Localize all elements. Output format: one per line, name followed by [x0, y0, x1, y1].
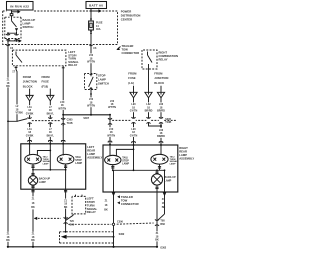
svg-text:FROM: FROM: [128, 71, 137, 75]
label BACK-UP LAMP SWITCH: [23, 18, 36, 29]
svg-text:FROM: FROM: [23, 75, 32, 79]
svg-text:BK: BK: [104, 209, 108, 212]
node BATT A0 feed box: [86, 2, 107, 9]
svg-text:B66: B66: [160, 223, 165, 226]
svg-text:T10B: T10B: [165, 121, 171, 124]
junction dot T4/T5: [160, 125, 162, 127]
svg-text:RELAY: RELAY: [68, 63, 77, 67]
label T08 B66: [160, 220, 165, 226]
wire Z1 long left vertical: [7, 42, 9, 247]
connector pair right leg: [15, 33, 19, 42]
label FROM JUNCTION BLOCK left: [23, 75, 37, 88]
svg-text:CENTER: CENTER: [121, 18, 132, 22]
svg-text:WT/TN: WT/TN: [87, 105, 95, 108]
dashed inline connector line left: [32, 120, 61, 122]
exit wires left box: [32, 185, 34, 189]
svg-text:BLOCK: BLOCK: [154, 81, 164, 85]
branch diagonal to T1 connector: [17, 119, 28, 122]
switch output arrowhead: [15, 28, 18, 31]
label L63 18 BR/RD: [157, 102, 165, 112]
label POWER DISTRIBUTION CENTER: [121, 10, 141, 22]
svg-text:RELAY: RELAY: [87, 210, 96, 214]
svg-text:LAMP: LAMP: [23, 21, 31, 25]
dashed line from left ground to trailer C: [34, 217, 61, 220]
wire relay to triangle: [148, 69, 150, 92]
label RIGHT REAR LAMP ASSEMBLY: [179, 146, 194, 161]
svg-text:BK: BK: [64, 206, 68, 209]
svg-text:LEFT: LEFT: [87, 145, 94, 149]
svg-text:BK: BK: [155, 239, 159, 242]
label Z1 18 BK: [29, 196, 38, 209]
label TRAILER TOW CONNECTOR lower: [117, 195, 138, 206]
label L61 lower: [26, 127, 34, 137]
label L90 18 GY/TN: [130, 102, 138, 112]
label TAIL/ STOP LAMP right: [122, 157, 129, 166]
svg-text:REAR: REAR: [179, 149, 187, 153]
svg-text:CONNECTOR: CONNECTOR: [121, 202, 139, 206]
svg-text:DISTRIBUTION: DISTRIBUTION: [121, 14, 141, 18]
svg-text:LEFT: LEFT: [87, 197, 94, 201]
label TAIL/TURN SIGNAL LAMP: [43, 155, 52, 165]
svg-text:BK: BK: [31, 206, 35, 209]
svg-text:TOW: TOW: [121, 199, 128, 203]
svg-text:BK: BK: [31, 239, 35, 242]
svg-text:BR/RD: BR/RD: [145, 110, 153, 113]
svg-text:LAMP: LAMP: [179, 153, 187, 157]
switch innards: [89, 72, 94, 92]
svg-text:RELAY: RELAY: [159, 57, 168, 61]
ground bus line: [8, 246, 157, 248]
wire T2 column: [49, 101, 51, 144]
svg-text:(F18): (F18): [42, 84, 49, 88]
lamp tail/stop right box: [105, 155, 121, 164]
svg-text:RIGHT: RIGHT: [179, 146, 188, 150]
svg-text:WT/TN: WT/TN: [108, 106, 116, 109]
right relay dashed box: [142, 50, 157, 69]
connector pair T3 wire: [131, 117, 135, 123]
internal ground bus: [31, 164, 67, 171]
svg-text:LAMP: LAMP: [39, 181, 46, 184]
arrow tap right: [12, 10, 21, 13]
relay innards: [148, 52, 153, 70]
svg-text:REAR: REAR: [87, 148, 95, 152]
label TAIL/TURN SIGNAL LAMP right: [170, 155, 179, 165]
label FUSE 14 40A: [96, 22, 103, 31]
label S305 T10B: [165, 118, 171, 124]
label TAIL/ STOP LAMP: [75, 156, 82, 165]
label L90 lower: [130, 127, 138, 137]
wire below stop switch: [90, 92, 92, 115]
splice S302: [113, 236, 115, 238]
label L50 above right drop: [108, 100, 116, 109]
svg-text:BACK-UP: BACK-UP: [23, 18, 36, 22]
svg-text:JUNCTION: JUNCTION: [154, 76, 168, 80]
wire from IN RUN box down: [11, 10, 13, 14]
svg-text:WT/TN: WT/TN: [58, 107, 66, 110]
svg-text:WT/TN: WT/TN: [107, 134, 115, 137]
svg-text:FROM: FROM: [154, 71, 163, 75]
svg-text:LAMP: LAMP: [98, 77, 106, 81]
back-up switch blade: [12, 16, 17, 27]
wire T3 column: [133, 98, 135, 145]
back-up lamp switch dashed box: [5, 17, 21, 38]
wire label on relay left leg: [14, 104, 23, 114]
connector pair T4 wire: [146, 117, 150, 123]
left ground wire 1: [32, 189, 34, 247]
svg-text:C306: C306: [117, 221, 123, 224]
svg-text:TURN: TURN: [87, 203, 95, 207]
junction dot: [7, 40, 9, 42]
connector pair right ground: [155, 218, 159, 227]
label L61 18 GY/BK: [26, 105, 34, 115]
dashed line to trailer conn C306: [68, 223, 111, 225]
label BACK-UP LAMP: [39, 178, 51, 184]
label L63 lower: [157, 128, 165, 138]
power distribution center dashed border: [3, 11, 118, 45]
label C305 T10B: [67, 118, 73, 124]
label L7 18 BK/YL: [46, 105, 54, 115]
wire label L50 18 WT/TN relay leg: [58, 100, 67, 110]
wire fuse down: [90, 30, 92, 72]
drop to right lamp from splice: [109, 115, 111, 145]
connector pair T5 wire: [159, 117, 163, 123]
relay coil ground wire: [66, 215, 73, 220]
svg-text:FUSE: FUSE: [42, 80, 50, 84]
relay pin right + wire down to splice: [62, 66, 65, 115]
exit wires right box: [113, 170, 115, 192]
connector pair T2 wire: [48, 117, 52, 123]
svg-text:BLOCK: BLOCK: [23, 84, 33, 88]
svg-text:TRAILER: TRAILER: [122, 44, 134, 48]
relay contact innards: [16, 52, 22, 63]
label Z1 18 BK on wire: [63, 199, 69, 209]
connector pair left leg: [6, 33, 10, 42]
label LEFT REAR LAMP ASSEMBLY: [87, 145, 102, 160]
svg-text:TRAILER: TRAILER: [121, 195, 133, 199]
svg-text:CONNECTOR: CONNECTOR: [122, 51, 140, 55]
svg-text:B66: B66: [70, 224, 75, 227]
triangle T4: [145, 92, 152, 98]
right ground wire left leg: [113, 192, 115, 247]
svg-text:IN RUN A22: IN RUN A22: [10, 4, 29, 8]
splice bus: [63, 114, 110, 116]
svg-text:1T: 1T: [12, 71, 15, 74]
svg-text:STOP/: STOP/: [87, 200, 95, 204]
label FROM FUSE right: [128, 71, 137, 84]
entry pin stop drop: [61, 141, 65, 142]
triangle T5: [157, 86, 164, 98]
entry pin T2: [49, 141, 53, 142]
svg-text:BK: BK: [6, 239, 10, 242]
svg-text:S307: S307: [83, 117, 89, 120]
label LEFT STOP/TURN SIGNAL RELAY: [68, 50, 79, 67]
back-up lamp left: [28, 170, 37, 185]
relay left pin wire down: [8, 70, 17, 122]
svg-text:SWITCH: SWITCH: [23, 25, 34, 29]
svg-text:POWER: POWER: [121, 10, 131, 14]
wire label Z1 18 BK: [5, 78, 11, 88]
svg-text:BK/YL: BK/YL: [47, 112, 55, 115]
svg-text:G302: G302: [160, 247, 167, 250]
svg-text:S302: S302: [119, 233, 125, 236]
svg-text:LAMP: LAMP: [87, 152, 95, 156]
svg-text:LAMP: LAMP: [122, 163, 129, 166]
connector on switch input: [10, 14, 13, 16]
svg-text:BK: BK: [6, 85, 10, 88]
svg-text:BATT A0: BATT A0: [89, 4, 103, 8]
svg-text:BK/YL: BK/YL: [47, 134, 55, 137]
fuse in PDC: [89, 21, 94, 30]
svg-text:GY/TN: GY/TN: [130, 110, 138, 113]
label LEFT STOP/TURN SIGNAL RELAY coil: [87, 197, 98, 215]
label BACK-UP LAMP right: [164, 176, 176, 182]
label Z1 18 BK: [104, 200, 108, 212]
junction dot on dashed border: [90, 10, 92, 12]
triangle T2: [47, 89, 54, 101]
internal feed wires: [29, 144, 31, 155]
svg-text:T10B: T10B: [67, 122, 73, 125]
wire T1 column: [29, 101, 31, 144]
connector tick C2: [6, 46, 13, 50]
label STOP LAMP SWITCH: [98, 73, 109, 85]
left ground wire 2 to trailer: [65, 189, 67, 232]
svg-text:LAMP: LAMP: [75, 162, 82, 165]
svg-text:BR/RD: BR/RD: [157, 135, 165, 138]
svg-text:40A: 40A: [96, 28, 101, 31]
svg-text:SIGNAL: SIGNAL: [87, 207, 98, 211]
label Z1 18 BK far-left ground: [4, 232, 13, 242]
back-up lamp right: [151, 170, 162, 185]
relay coil dashed box: [72, 196, 86, 214]
svg-text:GY/BK: GY/BK: [26, 134, 34, 137]
branch to lampA second filament: [37, 150, 51, 156]
node IN RUN A22 feed box: [7, 2, 34, 11]
left lamp assembly box: [21, 144, 86, 189]
label L62 18 BR/RD on T4 wire: [145, 102, 153, 112]
right lamp assembly box: [103, 145, 178, 192]
dashed inline connector line right: [112, 119, 176, 121]
triangle T3: [130, 86, 137, 98]
svg-text:JUNCTION: JUNCTION: [23, 80, 37, 84]
svg-text:BR/RD: BR/RD: [157, 110, 165, 113]
svg-text:ASSEMBLY: ASSEMBLY: [179, 156, 194, 160]
wire T4 jog to T5 column: [149, 98, 162, 126]
svg-text:WT/TN: WT/TN: [87, 61, 95, 64]
trailer tap arrows: [112, 192, 116, 196]
internal ground bus right: [111, 164, 164, 171]
wire batt down to fuse: [90, 9, 92, 22]
svg-text:GY/TN: GY/TN: [130, 134, 138, 137]
lamp tail/stop left box: [57, 154, 74, 164]
svg-text:BK: BK: [162, 206, 166, 209]
switch output jog wire: [8, 31, 17, 34]
relay contact dashed box: [12, 50, 66, 66]
arrow tap right along border: [91, 9, 102, 12]
entry pin T1: [28, 141, 32, 142]
relay coil pins: [73, 195, 82, 216]
connector tick C6: [89, 46, 97, 50]
svg-text:SWITCH: SWITCH: [98, 81, 109, 85]
wire label L50 18 WT/TN below switch: [87, 97, 96, 107]
label L50 lower right: [107, 127, 116, 137]
triangle T1: [26, 89, 33, 101]
label T20 B66: [70, 220, 75, 226]
label FROM FUSE BLOCK left: [42, 75, 51, 88]
arrow tap to trailer tow: [8, 39, 22, 42]
svg-text:RIGHT: RIGHT: [159, 50, 168, 54]
lamp tail/turn left: [25, 154, 42, 164]
svg-text:(LG): (LG): [128, 81, 134, 85]
internal feed wires: [109, 145, 111, 156]
label L7 lower: [46, 127, 54, 137]
svg-text:GY/BK: GY/BK: [26, 112, 34, 115]
label Z1 18 BK lowest right: [154, 231, 160, 241]
branch to lampC second filament: [116, 149, 134, 156]
svg-text:LAMP: LAMP: [164, 180, 171, 183]
right ground wire A x157: [156, 192, 158, 247]
svg-text:STOP: STOP: [98, 73, 106, 77]
right ground wire B x164.5 slanting into A: [158, 192, 165, 220]
label Z1 18 BK beside wire B: [162, 198, 166, 209]
svg-text:VT/BK: VT/BK: [16, 112, 24, 115]
svg-text:TOW: TOW: [122, 48, 129, 52]
connector pair right drop: [108, 117, 112, 126]
svg-text:LAMP: LAMP: [43, 163, 50, 166]
svg-text:FROM: FROM: [42, 75, 51, 79]
relay pin 1T: [12, 66, 17, 74]
junction dot below fuse: [90, 32, 92, 34]
connector pair T1 wire: [27, 117, 31, 123]
junction dot: [7, 32, 9, 34]
label Z1 18 BK on wire33 lower: [30, 232, 36, 242]
arrow line inside trailer box: [61, 235, 114, 239]
label FROM JUNCTION BLOCK right: [154, 71, 168, 84]
svg-text:ASSEMBLY: ASSEMBLY: [87, 155, 102, 159]
svg-text:FUSE: FUSE: [128, 76, 136, 80]
svg-text:COMBINATION: COMBINATION: [159, 54, 179, 58]
end dot on trailer dashed box: [65, 231, 67, 233]
stop lamp switch dashed box: [85, 74, 97, 90]
svg-text:LAMP: LAMP: [170, 163, 177, 166]
label RIGHT COMBINATION RELAY: [159, 50, 179, 61]
lamp tail/turn right box: [151, 154, 168, 164]
wire relay leg to lamp entry: [62, 115, 64, 144]
wire label L50 18 WT/TN: [87, 53, 96, 63]
connector pair on relay leg: [61, 117, 65, 126]
connector pair left trailer ground: [64, 216, 68, 225]
wire T5 column: [160, 98, 162, 145]
